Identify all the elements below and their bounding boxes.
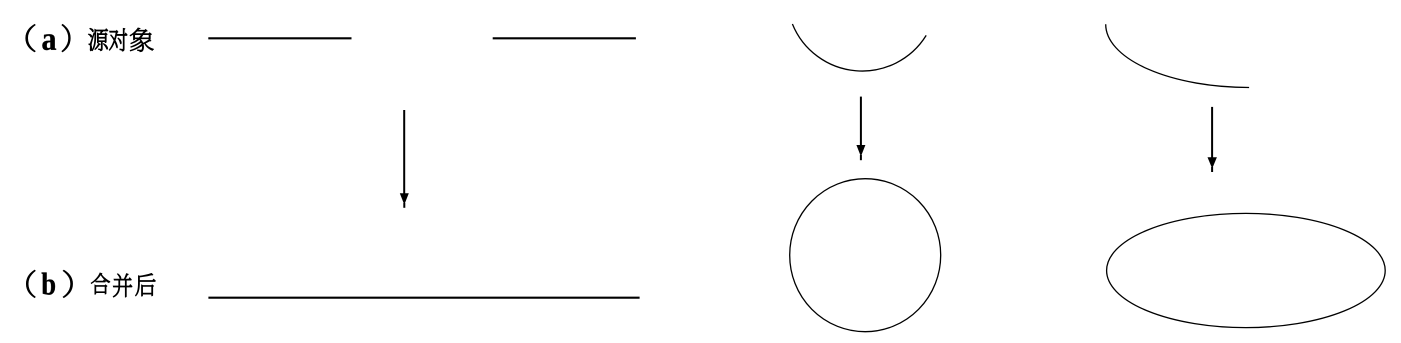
label (a) 源对象 (26, 24, 154, 51)
arrow down (ellipse group) (1208, 107, 1217, 172)
merged line (208, 297, 639, 299)
merged circle (790, 179, 941, 332)
source arc (circle fragment) (792, 24, 926, 71)
arrow down (circle group) (856, 97, 865, 161)
source line segment 1 (208, 37, 351, 39)
source line segment 2 (493, 37, 636, 39)
merged ellipse (1107, 213, 1386, 327)
source elliptical arc (1106, 24, 1249, 87)
label (b) 合并后 (26, 270, 155, 297)
arrow down (lines group) (400, 110, 409, 208)
